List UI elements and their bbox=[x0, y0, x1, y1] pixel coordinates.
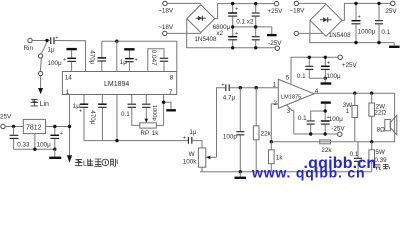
terminal -25V at LM1875 bbox=[331, 125, 345, 136]
svg-text:0.33: 0.33 bbox=[17, 141, 30, 148]
terminal 25V input left bbox=[0, 114, 12, 129]
svg-text:+25V: +25V bbox=[342, 62, 358, 69]
node 7812 output junctions bbox=[53, 125, 71, 128]
op-amp U1 LM1894 box bbox=[62, 72, 176, 96]
label circled 1 bbox=[102, 159, 109, 166]
capacitor 6800u upper bbox=[213, 4, 239, 38]
label to Lin bbox=[31, 100, 38, 106]
ground supply1 mid bbox=[267, 27, 277, 35]
capacitor 0.1 x2 upper bbox=[236, 4, 259, 27]
wire top rail of LM1894 bbox=[102, 41, 177, 71]
svg-text:0.047: 0.047 bbox=[150, 50, 157, 66]
svg-text:8: 8 bbox=[170, 74, 174, 81]
capacitor 1000u supply2 bbox=[352, 3, 376, 42]
node supply2 junctions bbox=[354, 2, 380, 45]
wire ground rail bottom middle bbox=[200, 171, 372, 173]
svg-text:1000p: 1000p bbox=[151, 105, 157, 121]
svg-text:100μ: 100μ bbox=[37, 141, 52, 148]
node supply1 rail junctions bbox=[231, 2, 257, 50]
node pin7 junction bbox=[162, 101, 165, 104]
wire pot bottom to ground rail bbox=[201, 167, 203, 172]
capacitor 100p to ground bbox=[223, 88, 244, 172]
svg-text:W: W bbox=[189, 151, 195, 158]
svg-text:7812: 7812 bbox=[26, 125, 42, 132]
input terminal Rin bbox=[24, 38, 34, 52]
svg-text:-25V: -25V bbox=[331, 125, 345, 132]
potentiometer W 100k bbox=[183, 148, 206, 167]
wire cap to pot top bbox=[192, 141, 202, 148]
label to L channel pin 1 bbox=[75, 159, 117, 167]
capacitor 0.33 at 7812 input bbox=[10, 127, 30, 150]
wire LM1894 bottom bus bbox=[84, 140, 188, 142]
node ground rail junction bbox=[239, 170, 242, 173]
terminal AC 18V upper supply2 bbox=[289, 1, 305, 14]
svg-text:0.1 x2: 0.1 x2 bbox=[236, 18, 254, 25]
wire pin2 feedback L bbox=[271, 104, 278, 142]
node 7812 input junction bbox=[12, 125, 15, 128]
svg-text:25V: 25V bbox=[385, 8, 397, 15]
svg-text:4.7μ: 4.7μ bbox=[223, 94, 236, 101]
svg-text:470μ: 470μ bbox=[89, 50, 96, 65]
capacitor 1u pin10 with ground above bbox=[120, 49, 139, 71]
svg-text:1N5408: 1N5408 bbox=[329, 32, 352, 39]
capacitor 100u at 7812 output bbox=[37, 127, 64, 150]
capacitor 0.1 plus rail bbox=[297, 57, 313, 80]
ground 7812 bbox=[49, 149, 61, 158]
potentiometer RP 1k bbox=[140, 123, 159, 137]
resistor 0.39 ohm 5W non-inductive bbox=[369, 142, 390, 172]
regulator U3 7812 bbox=[23, 119, 45, 133]
svg-text:www. qqibb. cn: www. qqibb. cn bbox=[251, 165, 365, 181]
node input junction bbox=[45, 39, 48, 42]
resistor 1k to ground bbox=[269, 142, 284, 172]
wire bridge1 plus to +25V rail bbox=[215, 4, 274, 19]
wire 7812 gnd pin bbox=[34, 134, 36, 150]
capacitor 6800u lower bbox=[228, 27, 239, 48]
wire pin7 to ground and RP right bbox=[156, 95, 171, 126]
svg-text:LM1875: LM1875 bbox=[281, 95, 302, 101]
arrow to Lin bbox=[38, 88, 43, 94]
svg-text:0.1: 0.1 bbox=[381, 29, 390, 36]
wire pin1 supply column down to arrow bbox=[69, 95, 71, 156]
capacitor 0.1 x2 lower bbox=[252, 27, 260, 48]
wire to pin1 LM1875 bbox=[230, 87, 279, 89]
svg-text:25V: 25V bbox=[0, 114, 12, 121]
svg-text:LM1894: LM1894 bbox=[104, 81, 129, 88]
svg-text:470μ: 470μ bbox=[89, 110, 96, 125]
terminal AC 18V lower supply1 bbox=[158, 24, 174, 36]
terminal +25V at LM1875 bbox=[338, 55, 357, 69]
ground main bbox=[235, 172, 247, 178]
wire Rin to C1 bbox=[32, 40, 50, 42]
speaker 8 ohm bbox=[377, 115, 397, 135]
ground plus caps bbox=[321, 78, 332, 83]
capacitor 1u coupling to volume pot bbox=[183, 129, 197, 144]
svg-text:1μ: 1μ bbox=[120, 59, 128, 66]
svg-text:100p: 100p bbox=[223, 133, 238, 140]
capacitor 470u pin3 bottom bbox=[89, 95, 107, 141]
capacitor 470u pin12 series to top rail bbox=[89, 41, 107, 71]
terminal AC 18V lower supply2 bbox=[294, 31, 298, 35]
svg-text:1000μ: 1000μ bbox=[358, 28, 376, 35]
capacitor 0.1 pin5 bottom bbox=[121, 95, 140, 126]
resistor 22k input to ground bbox=[253, 88, 271, 172]
svg-text:22k: 22k bbox=[261, 130, 272, 137]
svg-text:100μ: 100μ bbox=[327, 73, 342, 80]
svg-text:~18V: ~18V bbox=[158, 24, 174, 31]
capacitor 0.1 zobel bbox=[350, 142, 362, 172]
wire bridge2 plus to 25V rail bbox=[342, 3, 391, 20]
svg-text:7: 7 bbox=[169, 89, 173, 96]
node plus caps junctions bbox=[308, 56, 327, 80]
wire pin11 column bbox=[116, 41, 118, 71]
capacitor 0.1 minus rail bbox=[298, 111, 325, 134]
wire AC1 to bridge2 top bbox=[299, 2, 327, 4]
wire 25V to 7812 bbox=[5, 126, 23, 128]
op-amp U2 LM1875 triangle bbox=[273, 75, 319, 115]
node minus caps junctions bbox=[309, 109, 327, 135]
wire pin3 down to -25V rail bbox=[287, 105, 294, 134]
capacitor 100u plus rail bbox=[321, 57, 341, 80]
ground minus caps bbox=[321, 103, 331, 121]
svg-text:100μ: 100μ bbox=[48, 60, 63, 67]
svg-text:1μ: 1μ bbox=[48, 47, 56, 54]
svg-text:1k: 1k bbox=[276, 155, 284, 162]
node feedback junctions bbox=[270, 140, 374, 143]
terminal -25V supply1 bbox=[268, 40, 282, 51]
svg-text:100k: 100k bbox=[183, 159, 198, 166]
svg-text:1μ: 1μ bbox=[73, 103, 81, 110]
wire wiper up to LM1875 input bbox=[217, 88, 226, 158]
svg-text:22k: 22k bbox=[321, 147, 332, 154]
svg-text:1μ: 1μ bbox=[189, 129, 197, 136]
svg-text:0.1: 0.1 bbox=[121, 111, 130, 118]
switch to Lin bbox=[39, 42, 48, 88]
capacitor 100u minus rail bbox=[321, 115, 343, 134]
capacitor 0.047 between pin10 and pin9 loop bbox=[148, 49, 168, 72]
wire output from pin4 bbox=[314, 93, 395, 142]
wire C1 to pin13 column bbox=[55, 41, 86, 72]
svg-text:1: 1 bbox=[346, 108, 350, 115]
wire 7812 output bbox=[46, 126, 70, 128]
resistor 22k feedback bbox=[320, 140, 333, 154]
potentiometer RP 1k wiper arrow bbox=[145, 119, 149, 123]
wire -25V rail bbox=[294, 133, 338, 135]
svg-text:100μ: 100μ bbox=[329, 116, 344, 123]
wire bridge1 minus down to -25V rail bbox=[187, 19, 276, 48]
terminal 25V supply2 bbox=[385, 1, 397, 15]
svg-text:L: L bbox=[83, 161, 87, 168]
capacitor 1u pin2 bottom bbox=[73, 95, 88, 141]
svg-text:~18V: ~18V bbox=[158, 7, 174, 14]
rectifier bridge D1 1N5408 bbox=[187, 5, 217, 43]
svg-text:1: 1 bbox=[273, 81, 277, 88]
resistor 22 ohm 2W bbox=[369, 93, 387, 142]
svg-text:+25V: +25V bbox=[267, 8, 283, 15]
svg-text:RP: RP bbox=[140, 130, 149, 137]
svg-text:5: 5 bbox=[286, 75, 290, 82]
wire plus caps bottom bbox=[309, 77, 325, 79]
node input network junctions bbox=[239, 86, 258, 89]
wire AC2 to bridge1 bottom bbox=[167, 32, 201, 34]
svg-text:x2: x2 bbox=[216, 30, 223, 37]
svg-text:-25V: -25V bbox=[268, 40, 282, 47]
node 7812 bottom junctions bbox=[33, 148, 56, 151]
wire pin5 up to +25V bbox=[291, 57, 338, 83]
ground pin7 bbox=[166, 109, 176, 111]
svg-text:Lin: Lin bbox=[40, 101, 49, 108]
svg-text:0.1: 0.1 bbox=[298, 115, 307, 122]
ground supply2 bbox=[389, 43, 400, 47]
svg-text:22Ω: 22Ω bbox=[374, 110, 386, 117]
node bottom bus junction bbox=[115, 139, 118, 142]
svg-text:1k: 1k bbox=[152, 130, 160, 137]
wire feedback rail bbox=[271, 141, 371, 143]
svg-text:5W: 5W bbox=[375, 149, 385, 156]
node output junctions bbox=[353, 92, 373, 95]
svg-text:1N5408: 1N5408 bbox=[194, 36, 217, 43]
capacitor 1u input series bbox=[48, 36, 60, 54]
svg-text:0.1: 0.1 bbox=[297, 73, 306, 80]
wire 7812 bottom bus bbox=[14, 148, 55, 150]
wire AC1 to bridge1 top bbox=[167, 2, 201, 4]
wire bridge2 minus down to bottom rail bbox=[310, 20, 394, 42]
potentiometer W wiper arrow bbox=[206, 156, 217, 160]
svg-text:4: 4 bbox=[315, 88, 319, 95]
node top rail junction bbox=[115, 40, 118, 43]
capacitor 100u pin14 with ground above bbox=[48, 49, 77, 71]
svg-text:Rin: Rin bbox=[24, 45, 34, 52]
capacitor 4.7u coupling bbox=[221, 82, 235, 101]
svg-text:~18V: ~18V bbox=[289, 7, 305, 14]
capacitor 0.1 supply2 bbox=[375, 3, 391, 42]
terminal +25V supply1 bbox=[267, 1, 283, 15]
resistor 1 ohm 3W bbox=[343, 93, 358, 142]
svg-text:14: 14 bbox=[65, 74, 73, 81]
svg-text:8Ω: 8Ω bbox=[377, 126, 386, 133]
wire AC2 to bridge2 bbox=[299, 32, 323, 34]
terminal AC 18V upper supply1 bbox=[158, 1, 174, 14]
wire pin4 column bbox=[116, 95, 118, 141]
wire supply1 mid rail bbox=[233, 26, 272, 28]
capacitor 1000p pin6 bottom bbox=[142, 95, 157, 121]
rectifier bridge D2 1N5408 bbox=[310, 4, 351, 39]
arrow to L channel pin1 bbox=[67, 155, 72, 163]
